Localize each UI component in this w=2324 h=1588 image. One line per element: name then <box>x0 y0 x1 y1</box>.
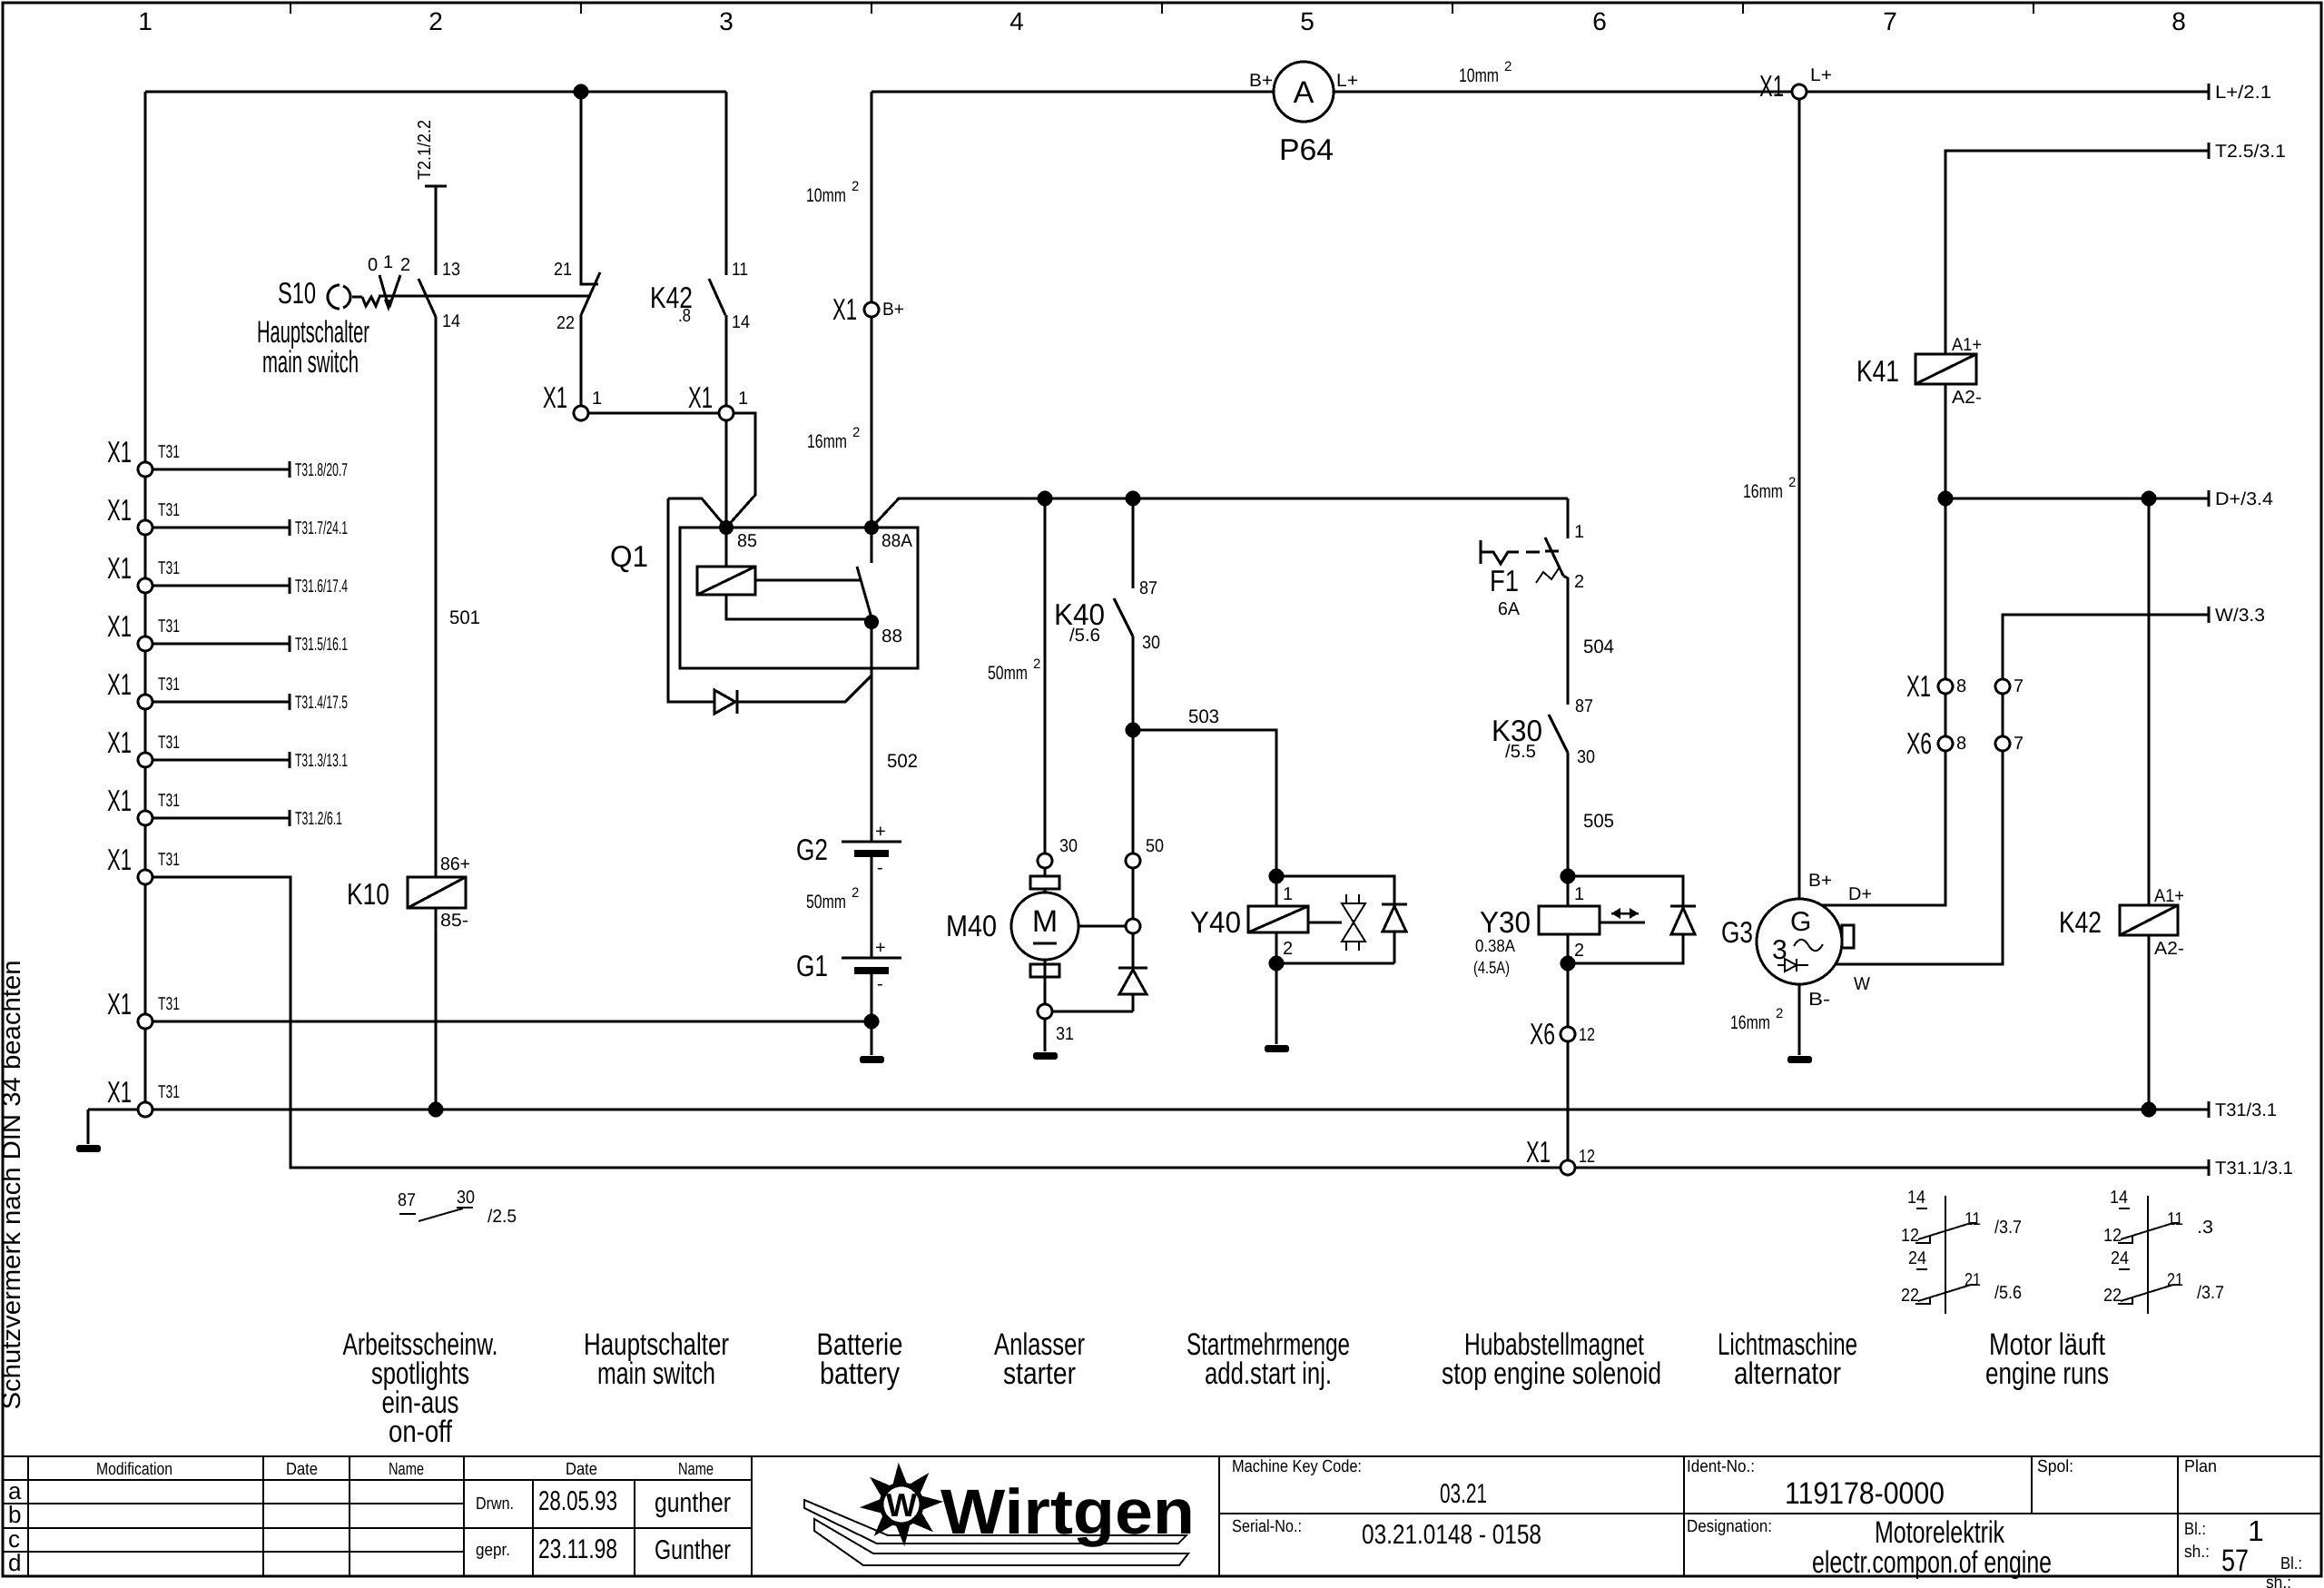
svg-text:0.38A: 0.38A <box>1475 937 1515 956</box>
svg-text:gepr.: gepr. <box>476 1541 510 1560</box>
svg-text:.3: .3 <box>2197 1218 2213 1238</box>
svg-text:A1+: A1+ <box>1952 335 1982 355</box>
svg-text:Modification: Modification <box>96 1460 172 1479</box>
svg-text:B+: B+ <box>1808 871 1832 891</box>
svg-text:T31: T31 <box>158 675 180 695</box>
svg-text:86+: 86+ <box>440 854 470 874</box>
terminal X1 T31 row10 <box>107 1075 180 1117</box>
ground M40 <box>1033 1052 1058 1060</box>
svg-text:(4.5A): (4.5A) <box>1473 959 1510 978</box>
svg-text:T31: T31 <box>158 994 180 1014</box>
svg-text:1: 1 <box>592 389 602 409</box>
svg-text:Ident-No.:: Ident-No.: <box>1687 1457 1755 1476</box>
svg-text:battery: battery <box>820 1356 900 1391</box>
terminal X1 1 (left) <box>543 380 719 420</box>
svg-text:7: 7 <box>1883 7 1897 35</box>
svg-text:+: + <box>875 822 886 842</box>
svg-text:G2: G2 <box>796 833 828 866</box>
battery G2 <box>796 822 901 958</box>
svg-text:1: 1 <box>383 252 393 272</box>
wire W/3.3 column to G3 <box>1836 606 2265 964</box>
svg-text:X1: X1 <box>107 843 132 876</box>
svg-text:Date: Date <box>286 1460 318 1479</box>
wire K42 coil branch <box>2148 498 2151 905</box>
wire 502 <box>871 676 918 842</box>
terminal X6 12 <box>1530 1017 1595 1050</box>
svg-text:2: 2 <box>1776 1006 1783 1021</box>
svg-text:X1: X1 <box>543 380 567 414</box>
svg-text:Y40: Y40 <box>1190 905 1241 939</box>
terminal X1 T31 row1 <box>107 435 348 480</box>
svg-text:14: 14 <box>2110 1188 2128 1208</box>
svg-text:88: 88 <box>881 626 902 646</box>
svg-text:505: 505 <box>1583 811 1614 832</box>
svg-text:30: 30 <box>457 1188 475 1208</box>
junction D+ at K41 column <box>1938 491 1954 507</box>
svg-text:/2.5: /2.5 <box>487 1207 517 1227</box>
svg-text:85: 85 <box>737 531 757 551</box>
svg-text:X1: X1 <box>107 987 132 1021</box>
wire 503 <box>1133 706 1276 876</box>
svg-text:Wirtgen: Wirtgen <box>940 1476 1195 1547</box>
svg-text:-: - <box>877 974 883 994</box>
svg-text:11: 11 <box>732 260 748 280</box>
terminal X1 T31 row6 <box>107 725 348 771</box>
title block <box>3 1456 2321 1576</box>
wire left vertical bus <box>144 92 147 1110</box>
svg-text:T31.3/13.1: T31.3/13.1 <box>295 751 348 771</box>
svg-text:X1: X1 <box>107 435 132 469</box>
svg-text:87: 87 <box>1575 696 1593 716</box>
svg-text:12: 12 <box>1579 1025 1595 1045</box>
terminal X1 T31 row2 <box>107 493 348 538</box>
wire 501 and relay coil K10 <box>347 317 480 1110</box>
svg-text:T31: T31 <box>158 791 180 811</box>
svg-text:11: 11 <box>1965 1209 1981 1229</box>
svg-text:0: 0 <box>368 255 378 275</box>
svg-text:2: 2 <box>428 7 443 35</box>
svg-text:M: M <box>1032 904 1058 939</box>
svg-text:10mm: 10mm <box>806 185 846 206</box>
junction bus at M40 column <box>1038 491 1053 507</box>
svg-text:W: W <box>886 1486 917 1524</box>
diode Y30 <box>1575 876 1696 963</box>
junction K10 on T31 bus <box>428 1102 444 1118</box>
S10 switch contact 13/14 with terminal T2.1/2.2 <box>415 120 460 331</box>
wire T31 bus <box>88 1100 2277 1144</box>
svg-text:22: 22 <box>1901 1286 1919 1306</box>
contact mirror table K42 <box>2103 1188 2224 1314</box>
svg-text:2: 2 <box>852 885 859 901</box>
svg-text:T31.6/17.4: T31.6/17.4 <box>295 577 348 597</box>
svg-text:8: 8 <box>1956 734 1966 754</box>
svg-text:16mm: 16mm <box>1743 481 1783 502</box>
svg-text:Name: Name <box>678 1460 714 1479</box>
svg-text:11: 11 <box>2167 1209 2183 1229</box>
svg-text:Plan: Plan <box>2184 1457 2217 1476</box>
svg-text:87: 87 <box>1139 578 1157 598</box>
terminal X1 B+ <box>832 292 904 326</box>
svg-text:T31.5/16.1: T31.5/16.1 <box>295 635 348 655</box>
solenoid Y40 <box>1190 869 1308 1045</box>
svg-text:X1: X1 <box>1906 669 1931 703</box>
svg-text:T31: T31 <box>158 850 180 870</box>
svg-text:X1: X1 <box>688 380 713 414</box>
svg-text:F1: F1 <box>1490 564 1519 597</box>
svg-text:14: 14 <box>1907 1188 1925 1208</box>
svg-text:16mm: 16mm <box>1730 1012 1770 1033</box>
svg-text:X1: X1 <box>107 725 132 759</box>
diode M40 <box>1052 933 1147 1011</box>
svg-text:22: 22 <box>2103 1286 2122 1306</box>
svg-text:G3: G3 <box>1721 915 1753 949</box>
svg-text:d: d <box>8 1549 21 1576</box>
junction K42 A2 on T31 bus <box>2142 1102 2157 1118</box>
svg-text:K10: K10 <box>347 877 389 911</box>
svg-text:A1+: A1+ <box>2154 886 2184 906</box>
svg-text:sh.:: sh.: <box>2266 1573 2291 1588</box>
svg-text:6: 6 <box>1592 7 1607 35</box>
svg-text:2: 2 <box>852 425 860 440</box>
svg-text:G1: G1 <box>796 949 828 982</box>
svg-text:T31: T31 <box>158 1082 180 1102</box>
svg-text:X1: X1 <box>107 609 132 643</box>
svg-text:13: 13 <box>442 260 460 280</box>
junction battery minus on row9 <box>864 1014 880 1030</box>
svg-text:8: 8 <box>2171 7 2186 35</box>
terminal X1 12 <box>1526 1135 1595 1175</box>
terminal X1 T31 row8 <box>107 843 180 884</box>
svg-text:T31: T31 <box>158 558 180 578</box>
svg-text:03.21: 03.21 <box>1440 1479 1487 1509</box>
terminal X6 7 <box>1995 734 2024 754</box>
wire T31.1 bus <box>153 877 2293 1179</box>
svg-text:T31: T31 <box>158 733 180 753</box>
svg-text:M40: M40 <box>946 909 997 942</box>
alternator G3 <box>1721 99 1872 1055</box>
relay contact K40 87/30 <box>1054 498 1160 853</box>
svg-text:T31.8/20.7: T31.8/20.7 <box>295 460 348 480</box>
svg-text:on-off: on-off <box>389 1415 452 1449</box>
svg-text:starter: starter <box>1003 1356 1076 1391</box>
svg-text:Y30: Y30 <box>1480 905 1531 939</box>
junction D+ at K42 column <box>2142 491 2157 507</box>
svg-text:1: 1 <box>1283 884 1293 904</box>
svg-text:X1: X1 <box>107 493 132 527</box>
svg-text:Serial-No.:: Serial-No.: <box>1232 1517 1302 1536</box>
svg-text:T31.7/24.1: T31.7/24.1 <box>295 518 348 538</box>
terminal M40 link <box>1126 919 1140 933</box>
ground left <box>76 1145 101 1152</box>
svg-text:21: 21 <box>2167 1270 2183 1290</box>
junction 503 <box>1126 723 1141 738</box>
svg-text:K42: K42 <box>2059 905 2102 939</box>
solenoid Y30 <box>1473 869 1645 1028</box>
wire top bus left <box>145 91 726 94</box>
terminal X1 L+ <box>1759 65 1832 103</box>
svg-text:2: 2 <box>1033 656 1040 672</box>
svg-text:A: A <box>1294 75 1315 110</box>
battery relay Q1 <box>610 498 918 702</box>
svg-text:Drwn.: Drwn. <box>476 1494 514 1514</box>
svg-text:21: 21 <box>1965 1270 1981 1290</box>
wire top bus right <box>871 59 2209 92</box>
relay coil K41 <box>1856 335 1982 498</box>
ammeter P64 <box>1249 62 1358 166</box>
battery G1 <box>796 938 901 1055</box>
diode in Q1 <box>714 690 737 714</box>
ground G3 B- <box>1787 1056 1812 1063</box>
svg-text:Bl.:: Bl.: <box>2184 1520 2206 1539</box>
svg-text:K41: K41 <box>1856 354 1899 388</box>
svg-text:X1: X1 <box>1526 1135 1551 1169</box>
svg-text:4: 4 <box>1009 7 1024 35</box>
svg-text:14: 14 <box>442 311 460 331</box>
svg-text:1: 1 <box>138 7 153 35</box>
svg-text:1: 1 <box>1574 884 1584 904</box>
svg-text:b: b <box>8 1501 21 1528</box>
svg-text:1: 1 <box>2248 1514 2264 1547</box>
terminal X6 8 <box>1906 726 1966 760</box>
svg-text:/5.5: /5.5 <box>1505 742 1536 762</box>
svg-text:57: 57 <box>2221 1544 2249 1578</box>
wire D+ column to G3 <box>1743 475 1945 905</box>
svg-text:electr.compon.of engine: electr.compon.of engine <box>1812 1545 2052 1580</box>
svg-text:2: 2 <box>1788 475 1796 490</box>
svg-text:W: W <box>1854 974 1870 994</box>
svg-text:119178-0000: 119178-0000 <box>1785 1476 1945 1511</box>
svg-text:B+: B+ <box>882 300 904 320</box>
svg-text:G: G <box>1790 907 1811 937</box>
svg-text:2: 2 <box>1574 572 1584 592</box>
svg-text:50mm: 50mm <box>988 663 1028 684</box>
svg-text:alternator: alternator <box>1734 1356 1841 1391</box>
main switch S10 <box>257 252 591 380</box>
svg-text:+: + <box>875 938 886 958</box>
svg-text:X1: X1 <box>1759 69 1784 103</box>
svg-text:7: 7 <box>2014 676 2024 696</box>
svg-text:L+: L+ <box>1810 65 1832 85</box>
svg-text:add.start inj.: add.start inj. <box>1205 1356 1332 1391</box>
svg-text:21: 21 <box>554 260 572 280</box>
svg-text:L+/2.1: L+/2.1 <box>2215 83 2271 103</box>
terminal L+/2.1 <box>2209 83 2271 103</box>
terminal X1 T31 row5 <box>107 667 348 713</box>
svg-text:-: - <box>877 858 883 878</box>
svg-text:B-: B- <box>1808 990 1830 1010</box>
svg-text:/3.7: /3.7 <box>2197 1283 2224 1303</box>
column captions <box>343 1327 2110 1449</box>
svg-text:S10: S10 <box>278 276 316 310</box>
svg-text:T31/3.1: T31/3.1 <box>2215 1100 2277 1120</box>
svg-text:main switch: main switch <box>262 345 359 380</box>
svg-text:504: 504 <box>1583 636 1614 657</box>
svg-text:30: 30 <box>1142 633 1160 653</box>
terminal X1 T31 row9 <box>107 987 871 1029</box>
svg-text:2: 2 <box>1283 939 1293 959</box>
svg-text:30: 30 <box>1059 836 1078 856</box>
wire D+/3.4 <box>1945 489 2273 509</box>
svg-text:gunther: gunther <box>655 1488 731 1518</box>
relay contact K30 87/30 <box>1492 696 1614 873</box>
svg-text:T31: T31 <box>158 442 180 462</box>
svg-text:12: 12 <box>1579 1147 1595 1167</box>
svg-text:main switch: main switch <box>597 1356 715 1391</box>
terminal X1 8 <box>1906 669 1966 703</box>
svg-text:/5.6: /5.6 <box>1069 626 1100 646</box>
svg-text:A2-: A2- <box>1952 388 1982 408</box>
svg-text:30: 30 <box>1577 747 1595 767</box>
svg-text:stop engine solenoid: stop engine solenoid <box>1442 1356 1661 1391</box>
svg-text:W/3.3: W/3.3 <box>2215 606 2265 626</box>
svg-text:501: 501 <box>449 607 480 628</box>
svg-text:24: 24 <box>1908 1248 1926 1268</box>
svg-text:1: 1 <box>738 389 748 409</box>
circuit breaker F1 <box>1481 498 1614 705</box>
terminal X1 7 <box>1995 676 2024 696</box>
svg-text:D+: D+ <box>1848 884 1872 904</box>
junction bus at K40 column <box>1126 491 1141 507</box>
svg-text:3: 3 <box>719 7 734 35</box>
svg-text:A2-: A2- <box>2154 939 2184 959</box>
S10 NC contact 21/22 <box>554 92 600 406</box>
contact reference K10 87/30 <box>398 1188 517 1227</box>
svg-text:22: 22 <box>556 313 575 333</box>
svg-text:7: 7 <box>2014 734 2024 754</box>
ground battery <box>860 1056 884 1063</box>
svg-text:14: 14 <box>732 312 750 332</box>
svg-text:Gunther: Gunther <box>655 1535 731 1565</box>
svg-text:X1: X1 <box>832 292 857 326</box>
svg-text:P64: P64 <box>1279 133 1334 166</box>
relay contact K42 11/14 <box>650 92 750 406</box>
svg-text:2: 2 <box>852 179 859 194</box>
svg-text:87: 87 <box>398 1190 416 1210</box>
svg-text:T2.5/3.1: T2.5/3.1 <box>2215 142 2286 162</box>
svg-text:24: 24 <box>2111 1248 2129 1268</box>
svg-text:Q1: Q1 <box>610 539 648 573</box>
svg-text:50mm: 50mm <box>806 892 846 912</box>
svg-text:T31.4/17.5: T31.4/17.5 <box>295 693 348 713</box>
svg-text:T31.2/6.1: T31.2/6.1 <box>295 809 342 829</box>
svg-text:X1: X1 <box>107 1075 132 1109</box>
svg-text:T31: T31 <box>158 616 180 636</box>
svg-text:503: 503 <box>1188 706 1219 727</box>
suppressor diodes Y40 <box>1284 876 1407 963</box>
svg-text:X1: X1 <box>107 667 132 701</box>
svg-text:Designation:: Designation: <box>1687 1517 1772 1536</box>
terminal X1 T31 row3 <box>107 551 348 597</box>
Wirtgen logo <box>804 1465 1195 1565</box>
svg-text:502: 502 <box>887 751 918 772</box>
svg-text:2: 2 <box>1504 59 1512 74</box>
wire 16mm2 B+ column <box>806 92 871 528</box>
svg-text:.8: .8 <box>678 306 691 326</box>
svg-text:engine runs: engine runs <box>1985 1356 2109 1391</box>
svg-text:T31.1/3.1: T31.1/3.1 <box>2215 1159 2293 1179</box>
relay coil K42 <box>2059 886 2184 1110</box>
terminal X1 T31 row7 <box>107 784 342 829</box>
wire T2.5/3.1 to K41 <box>1945 142 2286 354</box>
svg-text:16mm: 16mm <box>807 431 847 452</box>
svg-text:2: 2 <box>400 255 410 275</box>
svg-text:31: 31 <box>1056 1024 1074 1044</box>
svg-text:sh.:: sh.: <box>2184 1543 2210 1562</box>
svg-text:Machine Key Code:: Machine Key Code: <box>1232 1457 1362 1476</box>
wire bus Q1 88A to F1 <box>871 498 1568 528</box>
svg-text:10mm: 10mm <box>1459 65 1499 86</box>
starter motor M40 <box>946 498 1126 1051</box>
svg-text:Date: Date <box>566 1460 597 1479</box>
svg-text:L+: L+ <box>1336 71 1358 91</box>
svg-text:Name: Name <box>389 1460 424 1479</box>
svg-text:Bl.:: Bl.: <box>2280 1554 2302 1573</box>
svg-text:2: 2 <box>1574 941 1584 961</box>
svg-text:/5.6: /5.6 <box>1994 1283 2022 1303</box>
ground Y40 <box>1265 1045 1289 1052</box>
svg-text:T31: T31 <box>158 500 180 520</box>
svg-text:/3.7: /3.7 <box>1994 1218 2022 1238</box>
terminal 50 <box>1126 836 1164 919</box>
svg-text:T2.1/2.2: T2.1/2.2 <box>415 120 435 180</box>
terminal X1 1 (right) <box>688 380 755 528</box>
svg-text:Schutzvermerk nach DIN 34 beac: Schutzvermerk nach DIN 34 beachten <box>0 961 25 1410</box>
svg-text:Spol:: Spol: <box>2037 1457 2073 1476</box>
contact mirror table K41 <box>1901 1188 2022 1314</box>
svg-text:50: 50 <box>1146 836 1164 856</box>
svg-text:X6: X6 <box>1906 726 1932 760</box>
junction top bus at S10 NC contact <box>574 84 589 100</box>
svg-text:D+/3.4: D+/3.4 <box>2215 489 2273 509</box>
svg-text:5: 5 <box>1300 7 1315 35</box>
svg-text:B+: B+ <box>1249 71 1273 91</box>
svg-text:85-: 85- <box>440 911 468 931</box>
svg-text:6A: 6A <box>1498 599 1521 619</box>
svg-text:X1: X1 <box>107 784 132 817</box>
terminal X1 T31 row4 <box>107 609 348 655</box>
svg-text:8: 8 <box>1956 676 1966 696</box>
svg-text:28.05.93: 28.05.93 <box>538 1486 617 1516</box>
svg-text:X1: X1 <box>107 551 132 585</box>
svg-text:1: 1 <box>1574 522 1584 542</box>
svg-text:88A: 88A <box>881 531 913 551</box>
svg-text:X6: X6 <box>1530 1017 1555 1050</box>
svg-text:03.21.0148 - 0158: 03.21.0148 - 0158 <box>1362 1520 1541 1550</box>
wire X6 12 to X1 12 <box>1567 1041 1570 1160</box>
svg-text:23.11.98: 23.11.98 <box>538 1534 617 1564</box>
